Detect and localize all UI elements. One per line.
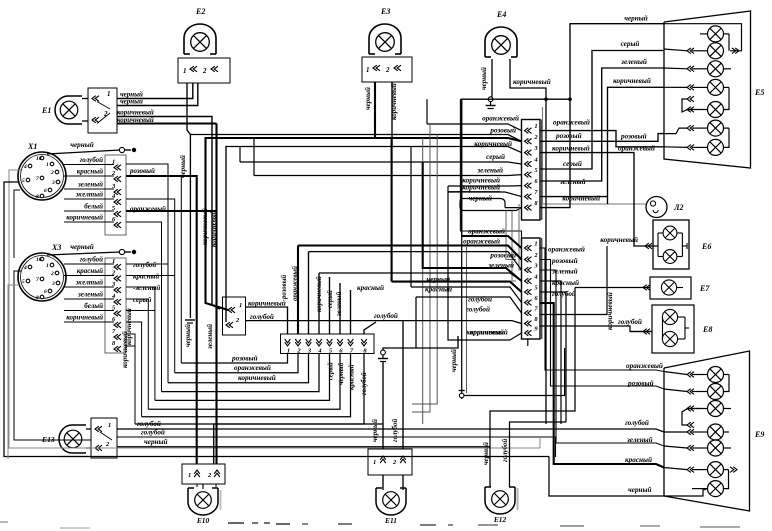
svg-text:3: 3 (51, 180, 55, 186)
svg-text:красный: красный (357, 283, 384, 292)
wire E13 black (117, 446, 490, 448)
wire X3 left leads (14, 271, 91, 440)
svg-text:оранжевый: оранжевый (626, 361, 663, 370)
wire U1 right black (540, 24, 664, 208)
X1 circle-to-strip wires (64, 164, 114, 166)
svg-text:черный: черный (70, 140, 94, 149)
E5 lamps (708, 26, 724, 42)
svg-text:8: 8 (36, 295, 39, 301)
svg-text:голубой: голубой (391, 419, 399, 442)
svg-text:коричневый: коричневый (562, 194, 600, 203)
grey vertical x466 (466, 247, 468, 393)
wire U1 p8 black loop (460, 199, 522, 211)
wire U1 p2 link (392, 138, 522, 141)
L2 brown wire (543, 203, 647, 205)
svg-text:черный: черный (624, 14, 648, 23)
svg-text:Е12: Е12 (493, 515, 507, 524)
connector block under E3 (362, 57, 412, 82)
switch block S1 near E1 (88, 88, 117, 133)
svg-text:голубой: голубой (625, 418, 649, 427)
svg-text:розовый: розовый (489, 126, 516, 135)
svg-text:зеленый: зеленый (551, 267, 578, 276)
X3 circle-to-strip wires (64, 263, 114, 265)
wire grey b-vert (422, 420, 424, 424)
svg-text:4: 4 (23, 164, 27, 170)
svg-text:коричневый: коричневый (117, 116, 154, 124)
svg-text:1: 1 (112, 258, 115, 265)
wire U2 p8 blue2 (246, 321, 522, 324)
svg-text:6: 6 (535, 179, 538, 185)
svg-text:черный: черный (184, 324, 192, 347)
X3 black lead to bullet connector (47, 252, 120, 255)
E9 entry segments (664, 372, 687, 375)
wire E12 blue up (510, 422, 567, 487)
wire E2 pin1 down (187, 83, 190, 318)
E6 feed arrow (645, 243, 652, 249)
wire U2 right blue (540, 292, 566, 422)
svg-text:коричневый: коричневый (462, 183, 500, 192)
svg-text:голубой: голубой (133, 261, 156, 269)
wire thick center to U2 (423, 162, 522, 281)
svg-text:1: 1 (534, 241, 537, 248)
svg-text:8: 8 (36, 194, 39, 200)
svg-text:голубой: голубой (468, 295, 492, 304)
svg-text:зеленый: зеленый (206, 324, 214, 350)
wire U1 right brown to E6 (540, 153, 658, 246)
lamp E11 housing (376, 488, 406, 515)
E9 lamp arrows (687, 372, 694, 378)
svg-text:красный: красный (133, 273, 159, 281)
lamp E10 housing (188, 488, 218, 515)
X1 pins (40, 156, 44, 160)
lamp unit E7 (650, 277, 691, 299)
svg-text:черный: черный (144, 437, 168, 446)
svg-text:голубой: голубой (618, 317, 642, 326)
svg-text:оранжевый: оранжевый (548, 245, 585, 254)
wire U2 p1 orange (462, 236, 522, 248)
connector block above E10 (182, 464, 225, 484)
svg-text:Е4: Е4 (496, 10, 506, 19)
svg-text:коричневый: коричневый (66, 214, 103, 222)
wire U2 right orange (540, 248, 664, 372)
wire U2 bottom black (383, 336, 458, 350)
svg-text:красный: красный (349, 364, 356, 390)
svg-text:Е9: Е9 (754, 430, 764, 439)
wire E11 lamp stubs (382, 475, 384, 490)
wire U1 right pink to E5 (540, 134, 664, 142)
wire run y138 thick to center (375, 137, 392, 139)
svg-text:1: 1 (287, 348, 290, 355)
wire X1 left leads (9, 170, 540, 448)
svg-text:голубой: голубой (250, 312, 274, 321)
svg-text:желтый: желтый (76, 279, 103, 287)
connector block under E2 (178, 58, 230, 83)
svg-text:черный: черный (338, 363, 345, 385)
svg-text:коричневый: коричневый (201, 208, 209, 245)
wire run y146 to U1 (392, 147, 522, 153)
svg-text:черный: черный (70, 242, 94, 251)
X1 black lead to bullet connector (47, 150, 120, 154)
ground near E11 (381, 350, 386, 355)
svg-text:коричневый: коричневый (121, 331, 129, 368)
svg-text:1: 1 (46, 162, 49, 168)
wire E12 black up (490, 288, 575, 488)
wire thick X1 pin5 to E10 (126, 210, 217, 212)
wire ground run y99 (460, 98, 570, 100)
svg-text:оранжевый: оранжевый (553, 118, 590, 127)
wire U2 p5 black (392, 282, 522, 292)
E5 internal wiring (664, 24, 742, 51)
svg-text:1: 1 (108, 422, 111, 429)
wire E3 black down-left (206, 82, 376, 310)
svg-text:красный: красный (77, 168, 103, 176)
svg-text:серый: серый (328, 362, 335, 380)
svg-text:1: 1 (188, 472, 191, 479)
wire U2 p9 brown (448, 192, 522, 340)
lamp unit E6 (653, 220, 689, 269)
wire U1 right orange to E5 (540, 131, 664, 147)
svg-text:зеленый: зеленый (77, 181, 103, 189)
svg-text:розовый: розовый (129, 167, 155, 175)
wire U2 right blue2 to E8 (540, 326, 652, 332)
svg-text:коричневый: коричневый (470, 328, 508, 337)
E8 feed wire (630, 331, 652, 333)
wire E4 black down (491, 59, 493, 97)
wire E13 blue2 (117, 437, 556, 457)
connector X1 circle (18, 152, 66, 200)
lamp E2 housing (184, 24, 216, 54)
svg-text:голубой: голубой (501, 439, 509, 462)
svg-text:Е1: Е1 (41, 106, 51, 115)
wire E13 blue1 (117, 429, 664, 432)
wire U1 right green to E5 (540, 68, 664, 181)
svg-text:черный: черный (450, 349, 458, 372)
svg-text:оранжевый: оранжевый (482, 114, 519, 123)
X3 pin strip (105, 258, 126, 353)
svg-text:1: 1 (366, 66, 370, 74)
svg-text:черный: черный (628, 485, 652, 494)
svg-text:серый: серый (327, 290, 334, 308)
svg-text:желтый: желтый (76, 191, 103, 199)
wire E1-3 brown (117, 117, 220, 310)
grey vertical bundle A (506, 211, 516, 260)
svg-text:коричневый: коричневый (513, 77, 551, 86)
svg-text:Е5: Е5 (754, 88, 764, 97)
svg-text:коричневый: коричневый (600, 235, 638, 244)
wire U1 right brown to E5 (540, 196, 608, 198)
wire U2 right pink (540, 260, 664, 390)
svg-text:5: 5 (535, 168, 538, 174)
svg-text:5: 5 (22, 279, 25, 285)
wire U1 p6 brown pair (448, 185, 522, 187)
wire U1 right grey to E5 (540, 51, 664, 170)
svg-text:коричневый: коричневый (210, 210, 218, 247)
wire E3 brown down-left (226, 82, 392, 322)
svg-text:розовый: розовый (231, 354, 258, 363)
svg-text:черный: черный (364, 87, 372, 110)
X3 pins (40, 257, 44, 261)
svg-text:коричневый: коричневый (390, 83, 398, 120)
svg-text:черный: черный (371, 419, 379, 442)
svg-text:4: 4 (23, 265, 27, 271)
wire U2 right green (540, 270, 664, 446)
connector strip X5 body (281, 334, 375, 354)
svg-text:оранжевый: оранжевый (618, 144, 655, 153)
connector block above E11 (368, 449, 412, 475)
svg-text:розовый: розовый (281, 275, 288, 300)
svg-text:белый: белый (84, 203, 103, 211)
svg-text:черный: черный (482, 442, 490, 465)
svg-text:5: 5 (22, 178, 25, 184)
wire U2 p6 red (411, 287, 522, 303)
wire U2 p4 green (319, 273, 522, 281)
X5 pins (285, 339, 291, 346)
svg-text:зеленый: зеленый (77, 291, 103, 299)
lamp E13 housing (59, 425, 86, 453)
svg-text:голубой: голубой (466, 305, 490, 314)
E9 internal wiring (692, 374, 708, 376)
wire E1-2 black (117, 83, 198, 106)
svg-text:10: 10 (36, 156, 42, 162)
svg-text:серый: серый (486, 152, 505, 161)
svg-text:серый: серый (563, 159, 582, 168)
svg-text:1: 1 (373, 459, 376, 466)
svg-text:красный: красный (625, 455, 652, 464)
svg-text:10: 10 (36, 257, 42, 263)
svg-text:2: 2 (385, 66, 390, 74)
svg-text:голубой: голубой (361, 372, 368, 395)
svg-text:2: 2 (202, 67, 207, 75)
svg-text:Х3: Х3 (51, 243, 61, 252)
svg-text:2: 2 (50, 271, 54, 277)
svg-text:зеленый: зеленый (626, 435, 653, 444)
svg-text:Е3: Е3 (380, 7, 390, 16)
lamp E1 housing (55, 96, 82, 124)
U2 pin9 bottom stub (527, 339, 529, 346)
wire U2 p7 blue (416, 297, 522, 313)
svg-text:голубой: голубой (80, 256, 103, 264)
wire E1-1 black (117, 83, 193, 99)
svg-text:голубой: голубой (374, 311, 398, 320)
svg-text:коричневый: коричневый (316, 276, 323, 312)
U1 pin arrows (525, 128, 532, 134)
wire U2 right red thick (540, 303, 664, 468)
svg-text:оранжевый: оранжевый (292, 266, 299, 301)
wire x460 down (460, 99, 521, 244)
scan artifact dashes (228, 522, 244, 524)
svg-text:6: 6 (44, 289, 47, 295)
wire U2 right brown vert (540, 246, 607, 315)
svg-text:Е2: Е2 (195, 7, 205, 16)
staircase horizontals up to strip pins (181, 354, 287, 364)
small block X4 body (223, 297, 246, 335)
lamp E4 housing (485, 27, 517, 57)
svg-text:1: 1 (107, 90, 111, 98)
svg-text:Е7: Е7 (699, 284, 710, 293)
X1 pin strip (105, 155, 126, 235)
svg-text:8: 8 (535, 201, 538, 207)
connector block U1 body (522, 120, 541, 221)
svg-text:Е8: Е8 (702, 325, 712, 334)
U2 pin arrows (525, 245, 532, 251)
svg-text:коричневый: коричневый (66, 314, 103, 322)
svg-text:розовый: розовый (627, 379, 654, 388)
wire U2 p3 pink (309, 252, 522, 270)
lamp E3 housing (369, 24, 401, 54)
svg-text:розовый: розовый (551, 256, 578, 265)
svg-text:белый: белый (84, 302, 103, 310)
svg-text:розовый: розовый (555, 131, 582, 140)
svg-text:красный: красный (77, 267, 103, 275)
wire U1 p5 green (254, 174, 522, 177)
wire E10 block stub (202, 484, 204, 489)
lamp unit E8 (652, 305, 694, 353)
wire E1-4 brown thick (117, 122, 217, 124)
staircase wires from X1 X3 pin strips (126, 176, 181, 363)
lamp cluster E5 outline (664, 11, 751, 168)
svg-text:зеленый: зеленый (476, 166, 503, 175)
svg-text:коричневый: коричневый (238, 373, 276, 382)
svg-text:Е6: Е6 (701, 242, 711, 251)
wire E4 brown right (510, 59, 546, 424)
svg-text:7: 7 (36, 176, 39, 182)
wire U2 p2 orange (298, 246, 522, 260)
svg-text:2: 2 (50, 170, 54, 176)
ground under E2 wire (185, 319, 195, 321)
E9 lamps (708, 367, 724, 383)
svg-text:Е11: Е11 (384, 516, 397, 525)
wire x461 junction run (461, 99, 463, 393)
svg-text:зеленый: зеленый (336, 292, 343, 317)
svg-text:-зеленый: -зеленый (133, 284, 160, 292)
svg-text:черный: черный (179, 155, 187, 178)
strip pin verticals up (329, 277, 331, 334)
svg-text:черный: черный (480, 67, 488, 90)
E7 feed wire (575, 287, 650, 289)
X3 extra pin wires (126, 263, 168, 265)
svg-text:1: 1 (239, 302, 242, 309)
wire grey bottom (539, 436, 541, 448)
svg-text:оранжевый: оранжевый (234, 363, 271, 372)
svg-text:черный: черный (120, 98, 143, 106)
svg-text:1: 1 (183, 67, 187, 75)
E5 lamp arrows (687, 48, 694, 54)
wire X4 brown (246, 307, 288, 334)
wire E11 black up (382, 362, 384, 449)
svg-text:7: 7 (36, 277, 39, 283)
svg-text:1: 1 (534, 123, 537, 130)
svg-text:голубой: голубой (80, 156, 103, 164)
lamp cluster E9 outline (664, 351, 750, 511)
svg-text:зеленый: зеленый (620, 57, 647, 66)
wire run y134 to U1 (190, 135, 521, 142)
wire U1 p1 orange (427, 124, 522, 131)
pilot lamp L2 (646, 197, 667, 218)
wire thick X1 pin2 to E10 (126, 176, 197, 464)
svg-text:1: 1 (46, 263, 49, 269)
svg-text:Е10: Е10 (196, 516, 210, 525)
svg-text:6: 6 (44, 188, 47, 194)
wire U2 right red (540, 281, 561, 424)
switch block near E13 (91, 418, 117, 458)
svg-text:розовый: розовый (620, 132, 647, 141)
connector X3 circle (18, 253, 66, 301)
svg-text:серый: серый (621, 39, 640, 48)
wire bottom black to E9 (549, 457, 664, 497)
svg-text:коричневый: коричневый (552, 144, 590, 153)
connector block U2 body (522, 238, 541, 339)
wire U1 p4 grey (240, 162, 522, 164)
grey vertical bundle B (422, 138, 424, 162)
ground junction below U2 (459, 390, 465, 392)
svg-text:1: 1 (112, 159, 115, 166)
svg-text:коричневый: коричневый (613, 76, 651, 85)
svg-text:3: 3 (51, 281, 55, 287)
ground near E4 (488, 97, 493, 102)
lamp E12 housing (485, 487, 515, 514)
E5 entry segments (664, 49, 687, 51)
svg-text:коричневый: коричневый (605, 292, 614, 330)
svg-text:Л2: Л2 (673, 203, 684, 212)
svg-text:Х1: Х1 (27, 142, 37, 151)
svg-text:оранжевый: оранжевый (463, 237, 500, 246)
